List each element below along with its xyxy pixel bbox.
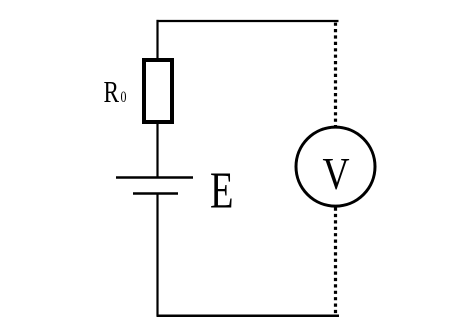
battery E long plate: [116, 176, 193, 178]
label R0: [104, 75, 127, 109]
wire dotted right upper: [334, 23, 337, 127]
battery E short plate: [133, 192, 178, 194]
wire resistor to battery: [156, 124, 158, 177]
svg-text:R0: R0: [104, 75, 127, 109]
label E: [210, 161, 234, 219]
wire top horizontal: [157, 20, 339, 22]
wire dotted right lower: [334, 208, 337, 316]
wire bottom horizontal: [157, 315, 340, 318]
resistor R0: [144, 60, 172, 122]
svg-text:E: E: [210, 161, 234, 219]
voltmeter V: [296, 127, 375, 206]
wire battery to bottom: [156, 195, 158, 317]
label V: [323, 150, 350, 200]
svg-text:V: V: [323, 150, 350, 200]
wire left vertical upper: [156, 20, 158, 59]
